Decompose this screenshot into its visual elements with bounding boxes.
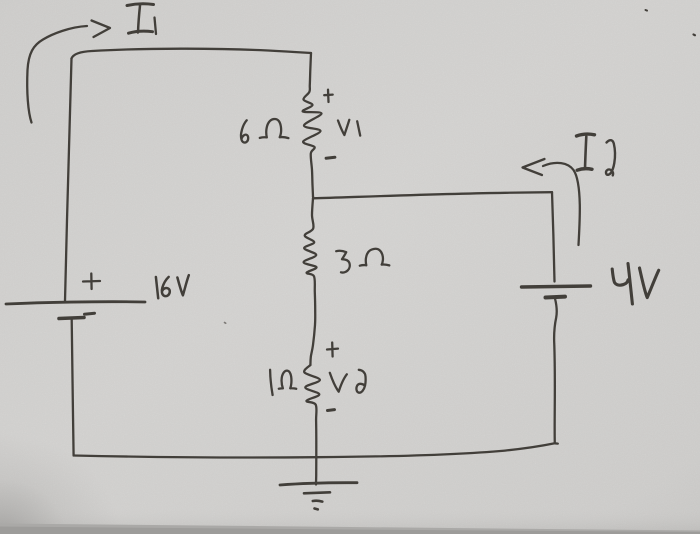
label - of V1 bbox=[326, 157, 335, 158]
wire: right vertical wire from middle wire to 4V battery bbox=[552, 192, 555, 281]
wire: top horizontal wire bbox=[72, 49, 312, 59]
label 3 ohm value bbox=[336, 249, 389, 273]
label 4V value bbox=[612, 264, 659, 305]
resistor R3 1ohm zigzag with lead to ground bbox=[304, 365, 320, 485]
current arrow I1 bbox=[27, 26, 87, 123]
label 6 ohm value bbox=[241, 119, 288, 143]
label - of 16V battery bbox=[85, 313, 95, 314]
wire: middle horizontal wire to the right bbox=[313, 192, 552, 198]
wire: left vertical wire from battery minus to bottom-left corner bbox=[72, 320, 74, 456]
label V1 voltage bbox=[338, 120, 360, 136]
paper speck top right bbox=[646, 9, 648, 12]
label + of V1 bbox=[324, 90, 333, 102]
label I2 current bbox=[577, 134, 595, 136]
resistor R1 6ohm zigzag with leads bbox=[303, 53, 322, 197]
label V2 voltage bbox=[330, 370, 366, 393]
battery 16V negative plate bbox=[59, 318, 84, 319]
label 1 ohm value bbox=[270, 370, 296, 395]
current arrow I2 bbox=[523, 159, 545, 175]
label + of V2 bbox=[327, 343, 338, 357]
label 16V value bbox=[156, 275, 189, 298]
wire: left vertical wire from top corner to 16V battery bbox=[65, 59, 72, 302]
label + of 16V battery bbox=[83, 274, 100, 290]
resistor R2 3ohm zigzag with leads bbox=[304, 198, 317, 365]
label I1 current bbox=[127, 4, 154, 6]
battery 4V negative plate bbox=[546, 295, 566, 300]
node junction middle bbox=[312, 197, 315, 199]
battery 16V positive plate bbox=[6, 302, 145, 304]
label - of V2 bbox=[328, 408, 335, 412]
battery 4V positive plate bbox=[522, 286, 591, 287]
ground symbol bbox=[280, 483, 357, 485]
wire: right vertical wire from 4V battery to bottom-right corner bbox=[554, 299, 557, 444]
wire: bottom horizontal wire bbox=[74, 443, 558, 457]
